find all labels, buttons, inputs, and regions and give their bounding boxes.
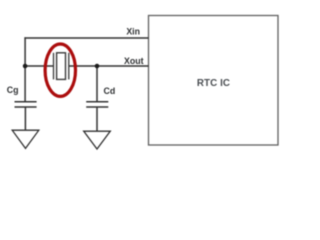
svg-text:Xin: Xin [126, 26, 140, 36]
junction node at Xout / Cd branch [95, 64, 100, 69]
svg-text:Cg: Cg [7, 85, 19, 95]
svg-text:Cd: Cd [104, 86, 116, 96]
capacitor Cg bottom plate [15, 106, 37, 108]
junction node at Xout / Cg branch [23, 64, 28, 69]
wire Cd to ground [96, 107, 98, 131]
crystal X1 right plate [68, 53, 70, 80]
wire Xin net (top horizontal) [24, 37, 148, 39]
capacitor Cg top plate [15, 101, 37, 103]
capacitor Cd bottom plate [86, 106, 108, 108]
wire left vertical (Xin to Cg) [24, 37, 26, 101]
ground symbol under Cd [84, 131, 111, 149]
capacitor Cd top plate [86, 101, 108, 103]
svg-text:RTC IC: RTC IC [197, 78, 230, 89]
red highlight ellipse annotation around crystal [45, 44, 75, 96]
crystal X1 left plate [53, 53, 55, 80]
crystal X1 body rectangle [57, 53, 66, 80]
ground symbol under Cg [12, 130, 39, 148]
wire Xout net left segment [25, 65, 54, 67]
RTC IC U1 box [149, 16, 279, 146]
wire Cg to ground [24, 107, 26, 130]
svg-text:Xout: Xout [124, 56, 144, 66]
wire Cd branch vertical [96, 66, 98, 102]
wire Xout net right segment [69, 65, 149, 67]
